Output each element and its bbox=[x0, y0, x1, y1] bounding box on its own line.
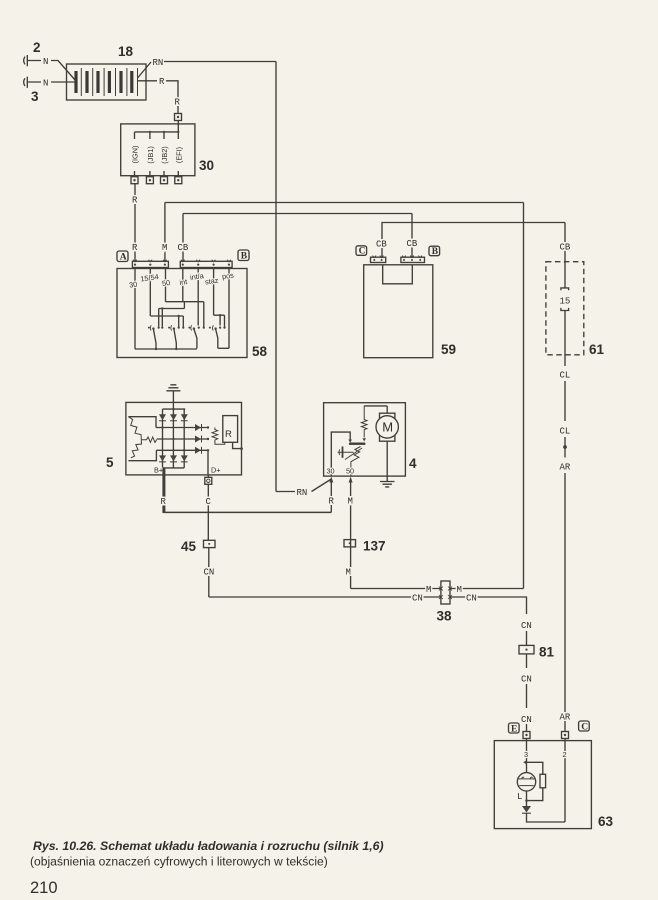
wire CB 59 to 61 bbox=[376, 223, 565, 258]
starter motor 4 bbox=[324, 403, 406, 476]
wire N (3) bbox=[43, 78, 76, 88]
svg-text:M: M bbox=[162, 243, 167, 253]
svg-text:R: R bbox=[132, 196, 138, 206]
pin int bbox=[179, 269, 188, 302]
svg-text:M: M bbox=[346, 568, 351, 578]
pin staz bbox=[204, 269, 224, 328]
regulator resistor bbox=[212, 428, 225, 445]
connector C label (63) bbox=[579, 721, 590, 732]
terminal 3 label bbox=[31, 89, 39, 104]
svg-text:CN: CN bbox=[521, 621, 532, 631]
svg-text:81: 81 bbox=[539, 645, 555, 660]
fuse JB1 bbox=[146, 146, 155, 163]
wire CB from 58 bbox=[178, 214, 413, 262]
svg-text:B: B bbox=[432, 247, 439, 257]
svg-text:15/54: 15/54 bbox=[140, 272, 159, 283]
switch arm 1 bbox=[150, 325, 156, 349]
solenoid contact bar bbox=[349, 442, 366, 445]
D+ terminal bbox=[208, 450, 221, 475]
connector C label (59) bbox=[356, 246, 367, 257]
rectifier diode columns bbox=[159, 409, 188, 468]
svg-text:CL: CL bbox=[560, 427, 571, 437]
svg-text:R: R bbox=[225, 429, 232, 440]
connector E label bbox=[509, 723, 520, 734]
connector 38 label bbox=[437, 609, 453, 624]
svg-text:50: 50 bbox=[346, 467, 354, 476]
svg-text:50: 50 bbox=[161, 278, 170, 288]
svg-text:CN: CN bbox=[521, 715, 532, 725]
caption line 1 bbox=[33, 839, 384, 853]
svg-text:R: R bbox=[132, 243, 138, 253]
svg-text:N: N bbox=[43, 78, 48, 88]
fuse JB2 bbox=[160, 146, 169, 163]
svg-text:C: C bbox=[359, 247, 366, 257]
svg-text:M: M bbox=[426, 585, 431, 595]
wire CN row right of 38 bbox=[450, 593, 527, 614]
regulator case stub bbox=[233, 442, 243, 450]
wire RN from 18 bbox=[138, 58, 277, 78]
page number bbox=[30, 879, 58, 897]
svg-text:CN: CN bbox=[521, 675, 532, 685]
fuse 30 label bbox=[199, 158, 214, 173]
wire CN below 81 bbox=[521, 654, 532, 732]
svg-text:M: M bbox=[457, 585, 462, 595]
pin 15/54 bbox=[140, 269, 183, 328]
starter top bus bbox=[364, 405, 387, 407]
ground below motor bbox=[380, 482, 395, 487]
fuse IGN bbox=[131, 146, 140, 164]
motor M bbox=[376, 406, 398, 441]
stator winding bbox=[128, 417, 156, 461]
svg-text:CB: CB bbox=[178, 243, 189, 253]
instrument unit 63 bbox=[494, 741, 591, 829]
pin pos bbox=[221, 269, 234, 349]
svg-text:3: 3 bbox=[524, 750, 528, 759]
wire C to 45 bbox=[206, 484, 212, 540]
bus bar right bbox=[218, 347, 229, 349]
svg-text:C: C bbox=[206, 497, 212, 507]
wire R from 30 to 58 bbox=[132, 184, 138, 262]
field diodes bbox=[195, 424, 202, 454]
svg-text:AR: AR bbox=[560, 713, 571, 723]
switch arm 3 bbox=[191, 325, 197, 348]
solenoid wire from 30 bbox=[331, 432, 352, 476]
resistor 63 bbox=[527, 774, 546, 800]
svg-text:(IGN): (IGN) bbox=[131, 146, 140, 164]
svg-text:(EFI): (EFI) bbox=[174, 147, 183, 163]
svg-text:M: M bbox=[382, 420, 393, 435]
svg-text:R: R bbox=[329, 497, 335, 507]
fuse EFI bbox=[174, 147, 183, 163]
wire RN vertical bbox=[275, 62, 277, 492]
connector strip C (59) bbox=[371, 256, 386, 263]
connector 45 bbox=[181, 539, 215, 554]
svg-text:Rys. 10.26. Schemat układu ład: Rys. 10.26. Schemat układu ładowania i r… bbox=[33, 839, 384, 853]
wire N (2) bbox=[43, 57, 76, 81]
svg-text:(JB1): (JB1) bbox=[146, 146, 155, 163]
gauge circle bbox=[517, 762, 535, 791]
svg-text:(JB2): (JB2) bbox=[160, 146, 169, 163]
wire M row right of 38 bbox=[450, 585, 524, 595]
svg-text:AR: AR bbox=[560, 463, 571, 473]
svg-text:2: 2 bbox=[33, 40, 41, 55]
fuse box 18 label bbox=[118, 44, 134, 59]
pin 50 bbox=[159, 269, 204, 328]
pin 50 arrow bbox=[346, 477, 353, 589]
wire M from 58 strip bbox=[162, 203, 167, 262]
alternator top bus bbox=[163, 408, 186, 410]
svg-text:CN: CN bbox=[412, 593, 423, 603]
svg-text:C: C bbox=[581, 722, 588, 732]
pin 50 label bbox=[346, 467, 354, 476]
svg-text:63: 63 bbox=[598, 814, 614, 829]
ignition switch 58 bbox=[117, 269, 247, 358]
fuse box 18 bbox=[67, 64, 147, 100]
connector pin square above 30 bbox=[175, 114, 182, 121]
fuse element 15 bbox=[560, 262, 571, 366]
svg-text:CB: CB bbox=[407, 239, 418, 249]
wire R from 18 bbox=[138, 77, 181, 114]
svg-text:15: 15 bbox=[560, 297, 571, 307]
unit 63 label bbox=[598, 814, 614, 829]
svg-text:CN: CN bbox=[204, 568, 215, 578]
svg-text:CB: CB bbox=[376, 240, 387, 250]
svg-text:RN: RN bbox=[297, 488, 308, 498]
wire CB into 61 bbox=[560, 223, 571, 263]
L label bbox=[517, 792, 522, 802]
terminal 2 bbox=[24, 55, 41, 66]
svg-text:D+: D+ bbox=[211, 466, 221, 475]
svg-text:CL: CL bbox=[560, 371, 571, 381]
svg-text:RN: RN bbox=[153, 58, 164, 68]
svg-text:30: 30 bbox=[199, 158, 214, 173]
svg-text:E: E bbox=[511, 724, 517, 734]
motor ground wire bbox=[386, 441, 388, 481]
alternator 5 label bbox=[106, 455, 114, 470]
svg-text:30: 30 bbox=[327, 467, 335, 476]
svg-text:staz: staz bbox=[204, 276, 219, 287]
svg-text:R: R bbox=[159, 77, 165, 87]
svg-text:(objaśnienia oznaczeń cyfrowyc: (objaśnienia oznaczeń cyfrowych i litero… bbox=[30, 855, 328, 869]
wire CN row to 38 bbox=[209, 593, 441, 603]
wire R bus to starter bbox=[164, 511, 331, 513]
svg-text:59: 59 bbox=[441, 342, 456, 357]
svg-text:R: R bbox=[175, 98, 181, 108]
connector pin C bbox=[562, 732, 569, 739]
pin 30 arrow bbox=[329, 477, 335, 513]
terminal 3 bbox=[24, 77, 41, 88]
connector B label (58) bbox=[238, 250, 249, 262]
svg-text:pos: pos bbox=[221, 271, 234, 282]
diode 63 bbox=[522, 806, 531, 813]
svg-text:2: 2 bbox=[563, 750, 567, 759]
svg-text:int: int bbox=[179, 277, 188, 287]
30 bottom pins bbox=[131, 171, 182, 184]
caption line 2 bbox=[30, 855, 328, 869]
fuse 61 label bbox=[589, 342, 605, 357]
pin 2 bbox=[563, 739, 567, 823]
solenoid coil bbox=[345, 447, 362, 477]
wire CL bbox=[560, 371, 571, 444]
svg-text:int/a: int/a bbox=[189, 271, 205, 282]
connector strip B (59) bbox=[401, 256, 425, 263]
svg-text:N: N bbox=[43, 57, 48, 67]
pin 30 bbox=[128, 269, 137, 350]
solenoid core bbox=[338, 447, 354, 458]
connector pin E bbox=[523, 732, 530, 739]
svg-text:4: 4 bbox=[409, 456, 417, 471]
wire AR bbox=[560, 463, 571, 732]
fuse 61 dashed box bbox=[546, 262, 584, 355]
D+ connector bbox=[205, 475, 212, 484]
wire RN to starter bbox=[276, 479, 331, 498]
switch arm 2 bbox=[171, 325, 176, 349]
switch 58 label bbox=[252, 344, 268, 359]
wire below gauge bbox=[525, 791, 528, 806]
pin 3 bbox=[524, 739, 528, 763]
svg-text:3: 3 bbox=[31, 89, 39, 104]
connector A label bbox=[117, 251, 128, 263]
wire AR label above C bbox=[560, 713, 571, 723]
alternator bottom bus bbox=[163, 467, 185, 469]
svg-text:M: M bbox=[348, 497, 353, 507]
alternator 5 bbox=[126, 402, 242, 475]
wire M vertical right bbox=[523, 203, 525, 589]
starter 4 label bbox=[409, 456, 417, 471]
svg-text:18: 18 bbox=[118, 44, 134, 59]
connector 38 bbox=[439, 581, 452, 604]
starter resistor bbox=[361, 406, 367, 442]
connector strip A bbox=[132, 260, 168, 268]
svg-text:B+: B+ bbox=[154, 466, 163, 475]
bottom link wire bbox=[527, 813, 566, 822]
contact row dots bbox=[148, 327, 226, 329]
wire CN below 38 bbox=[521, 621, 532, 645]
connector B label (59) bbox=[429, 246, 440, 257]
svg-text:210: 210 bbox=[30, 879, 58, 897]
bus bar left bbox=[135, 348, 197, 350]
svg-text:L: L bbox=[517, 792, 522, 802]
svg-text:5: 5 bbox=[106, 455, 114, 470]
svg-text:R: R bbox=[161, 497, 167, 507]
wire CB drop to 59 bbox=[407, 214, 418, 258]
pin 30 label bbox=[327, 467, 335, 476]
unit 59 label bbox=[441, 342, 456, 357]
svg-text:B: B bbox=[241, 252, 248, 262]
connector 137 bbox=[344, 539, 386, 554]
junction dot CL/AR bbox=[563, 444, 567, 458]
connector strip B bbox=[180, 260, 232, 268]
svg-text:45: 45 bbox=[181, 539, 197, 554]
B+ terminal bbox=[154, 466, 167, 514]
phase lines bbox=[156, 426, 209, 451]
svg-text:137: 137 bbox=[363, 539, 386, 554]
connector 81 bbox=[519, 645, 555, 660]
pin int/a bbox=[189, 269, 205, 326]
wire M horizontal bbox=[165, 202, 524, 204]
svg-text:30: 30 bbox=[128, 280, 137, 290]
control unit 59 bbox=[364, 265, 433, 358]
svg-text:CB: CB bbox=[560, 243, 571, 253]
svg-text:38: 38 bbox=[437, 609, 453, 624]
svg-text:58: 58 bbox=[252, 344, 268, 359]
switch arm 4 bbox=[213, 325, 218, 348]
svg-text:CN: CN bbox=[466, 593, 477, 603]
svg-text:A: A bbox=[120, 253, 127, 263]
branch to resistor bbox=[523, 761, 543, 775]
terminal 2 label bbox=[33, 40, 41, 55]
fuse unit 30 bbox=[121, 121, 195, 176]
wire M row to 38 bbox=[351, 585, 441, 595]
ground above alternator bbox=[166, 385, 180, 409]
regulator R box bbox=[223, 416, 238, 443]
svg-text:61: 61 bbox=[589, 342, 605, 357]
wire CN from 45 bbox=[204, 548, 215, 597]
